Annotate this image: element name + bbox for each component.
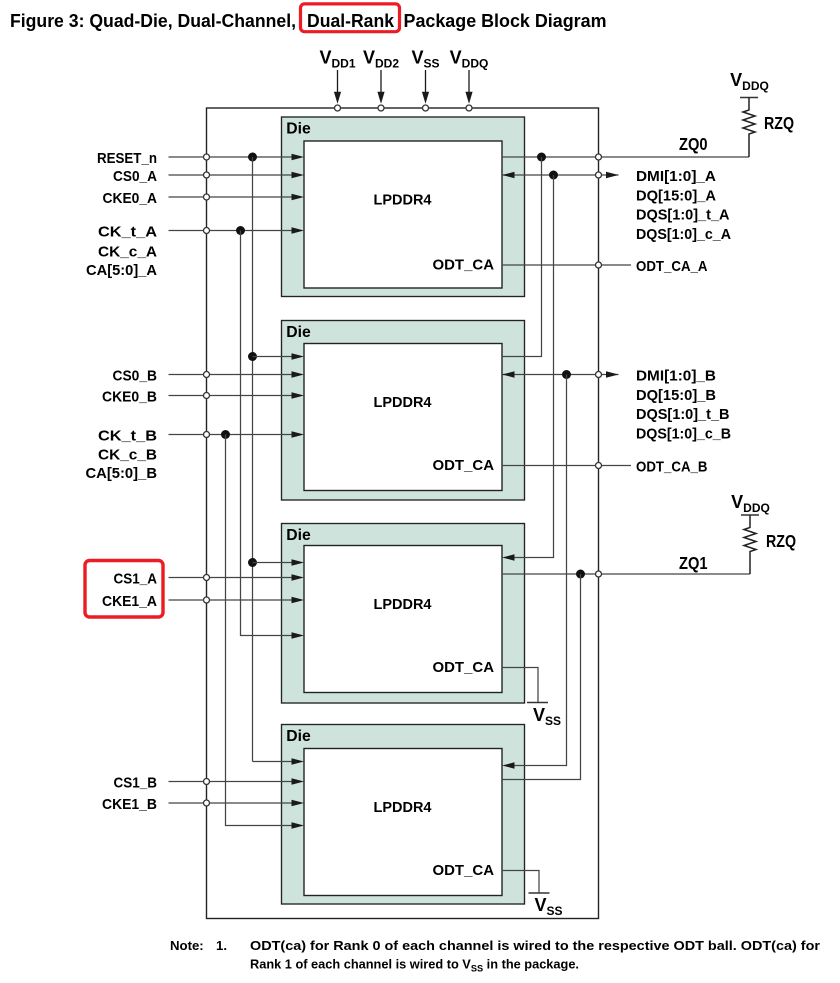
svg-text:CA[5:0]_B: CA[5:0]_B [86, 465, 158, 482]
ball VDD2 on package edge [378, 105, 384, 111]
die 2 outline [282, 321, 525, 501]
figure title [10, 11, 607, 31]
signal label CK_t_A [98, 224, 157, 241]
wire die3 ODT_CA to VSS [502, 668, 538, 703]
svg-text:CS0_A: CS0_A [113, 168, 157, 185]
title highlighted text Dual-Rank [307, 11, 395, 31]
svg-text:Die: Die [286, 728, 311, 745]
ball CKE1_B on package edge [204, 800, 210, 806]
svg-text:ODT_CA_B: ODT_CA_B [636, 459, 708, 476]
wire ZQ1 branch to die4 [502, 574, 581, 780]
svg-text:CS1_A: CS1_A [114, 571, 158, 588]
value label RZQ (ZQ0) [764, 113, 794, 133]
svg-text:Die: Die [286, 324, 311, 341]
svg-text:1.: 1. [216, 938, 227, 953]
wire RESET_n branch into die3 [253, 559, 305, 565]
signal label CA[5:0]_A [86, 262, 157, 279]
die 1 pin ODT_CA label [433, 257, 495, 274]
svg-text:CS0_B: CS0_B [113, 368, 158, 385]
signal label CKE1_B [102, 796, 157, 813]
wire CKE1_A into package [169, 597, 305, 603]
wire die4 ODT_CA to VSS [502, 871, 539, 894]
signal label CS1_B [114, 775, 158, 792]
power pin VDDQ label [450, 48, 489, 71]
svg-text:VSS: VSS [533, 705, 561, 728]
wire CKE0_A into package [169, 194, 305, 200]
wire ODT_CA_A [502, 264, 631, 266]
node ZQ0 junction [537, 153, 546, 162]
svg-text:CKE0_B: CKE0_B [102, 389, 157, 406]
svg-text:CK_t_B: CK_t_B [98, 428, 157, 445]
wire CK_t_B vertical bus to die4 [226, 435, 305, 829]
wire RESET_n branch into die4 [253, 758, 305, 764]
die 2 pin ODT_CA label [433, 457, 495, 474]
svg-text:LPDDR4: LPDDR4 [374, 596, 433, 613]
signal label CS0_B [113, 368, 158, 385]
svg-text:VSS: VSS [411, 48, 439, 71]
svg-text:CK_c_A: CK_c_A [98, 244, 157, 261]
wire CK_t_A into package [169, 227, 305, 233]
wire DQ bus die2 bidirectional [502, 371, 619, 377]
ball CK_t_A on package edge [204, 228, 210, 234]
ball ODT_CA_A on package edge [596, 262, 602, 268]
die 4 pin ODT_CA label [433, 862, 495, 879]
LPDDR4 block U3 [304, 546, 502, 693]
ball VSS on package edge [423, 105, 429, 111]
resistor RZQ (ZQ0) [743, 98, 755, 158]
svg-text:DQS[1:0]_c_B: DQS[1:0]_c_B [636, 425, 731, 442]
wire RESET_n into package [169, 154, 305, 160]
svg-text:ODT_CA: ODT_CA [433, 457, 495, 474]
node CK_t_B junction [221, 430, 230, 439]
ball ZQ0 on package edge [596, 154, 602, 160]
wire VDDQ pin stem [465, 70, 472, 104]
svg-text:DQS[1:0]_t_B: DQS[1:0]_t_B [636, 406, 730, 423]
svg-text:CKE1_B: CKE1_B [102, 796, 157, 813]
signal label CA[5:0]_B [86, 465, 158, 482]
svg-text:CKE1_A: CKE1_A [102, 593, 157, 610]
signal label CS0_A [113, 168, 157, 185]
die 4 outline [282, 725, 525, 905]
wire VDD2 pin stem [377, 70, 384, 104]
svg-text:CA[5:0]_A: CA[5:0]_A [86, 262, 157, 279]
wire VDD1 pin stem [334, 70, 341, 104]
wire CS0_B into package [169, 371, 305, 377]
die 1 outline [282, 117, 525, 297]
node ZQ1 junction [576, 570, 585, 579]
note text [170, 938, 820, 974]
wire ZQ1 from die3 to RZQ resistor [502, 573, 750, 575]
signal label CK_c_B [98, 447, 157, 464]
package outline [207, 108, 599, 919]
svg-text:Note:: Note: [170, 938, 204, 953]
ground VSS die3 [527, 703, 561, 728]
svg-text:LPDDR4: LPDDR4 [374, 191, 433, 208]
svg-text:ZQ0: ZQ0 [679, 134, 708, 154]
svg-text:VDD1: VDD1 [319, 48, 355, 71]
svg-text:DQ[15:0]_B: DQ[15:0]_B [636, 387, 716, 404]
svg-text:Die: Die [286, 120, 311, 137]
signal label ODT_CA_A [636, 258, 708, 275]
svg-text:VDD2: VDD2 [363, 48, 399, 71]
ball CKE0_B on package edge [204, 393, 210, 399]
resistor RZQ (ZQ1) [744, 515, 756, 574]
signal labels DQ bus channel A [636, 168, 731, 243]
svg-text:CS1_B: CS1_B [114, 775, 158, 792]
svg-text:Die: Die [286, 527, 311, 544]
signal label CS1_A [114, 571, 158, 588]
svg-text:ODT_CA: ODT_CA [433, 257, 495, 274]
svg-text:CK_c_B: CK_c_B [98, 447, 157, 464]
signal label ODT_CA_B [636, 459, 708, 476]
svg-text:RESET_n: RESET_n [97, 150, 157, 167]
power rail VDDQ for RZQ0 [730, 70, 769, 93]
svg-text:RZQ: RZQ [764, 113, 794, 133]
ball VDD1 on package edge [335, 105, 341, 111]
svg-text:DMI[1:0]_B: DMI[1:0]_B [636, 368, 716, 385]
signal label CK_c_A [98, 244, 157, 261]
svg-text:VDDQ: VDDQ [730, 70, 769, 93]
ball DQ-A on package edge [596, 172, 602, 178]
ball CS0_B on package edge [204, 372, 210, 378]
ball CKE1_A on package edge [204, 597, 210, 603]
svg-text:CK_t_A: CK_t_A [98, 224, 157, 241]
svg-text:ODT_CA_A: ODT_CA_A [636, 258, 708, 275]
wire DQ bus die1 bidirectional [502, 172, 619, 178]
ball CS1_B on package edge [204, 779, 210, 785]
svg-text:DQS[1:0]_c_A: DQS[1:0]_c_A [636, 226, 731, 243]
power rail VDDQ for RZQ1 [731, 492, 770, 515]
node RESET_n junction die1 [248, 153, 257, 162]
svg-text:VDDQ: VDDQ [450, 48, 489, 71]
wire ODT_CA_B [502, 465, 631, 467]
ball VDDQ on package edge [466, 105, 472, 111]
wire ZQ0 branch to die2 [502, 157, 542, 357]
value label RZQ (ZQ1) [766, 531, 796, 551]
ball ZQ1 on package edge [596, 571, 602, 577]
power pin VSS label [411, 48, 439, 71]
wire DQ-A bus branch to die3 [502, 175, 554, 561]
svg-text:ODT(ca) for Rank 0 of each cha: ODT(ca) for Rank 0 of each channel is wi… [250, 938, 820, 953]
svg-text:ODT_CA: ODT_CA [433, 659, 495, 676]
node DQ-B bus junction [562, 370, 571, 379]
node RESET_n junction die3 [248, 558, 257, 567]
wire CKE0_B into package [169, 392, 305, 398]
wire CK_t_A vertical bus to die3 [241, 231, 305, 639]
ball DQ-B on package edge [596, 372, 602, 378]
wire CKE1_B into package [169, 800, 305, 806]
LPDDR4 block U2 [304, 344, 502, 491]
wire CS1_B into package [169, 778, 305, 784]
net label ZQ0 [679, 134, 708, 154]
wire DQ-B bus branch to die4 [502, 375, 567, 769]
svg-text:ODT_CA: ODT_CA [433, 862, 495, 879]
red highlight box around CS1_A and CKE1_A [85, 561, 163, 618]
svg-text:Dual-Rank: Dual-Rank [307, 11, 395, 31]
node CK_t_A junction [236, 226, 245, 235]
net label ZQ1 [679, 553, 708, 573]
svg-text:Rank 1 of each channel is wire: Rank 1 of each channel is wired to VSS i… [250, 957, 579, 975]
ball RESET_n on package edge [204, 154, 210, 160]
signal labels DQ bus channel B [636, 368, 731, 443]
red highlight box around Dual-Rank [301, 4, 400, 32]
svg-text:VDDQ: VDDQ [731, 492, 770, 515]
die 2 label [286, 324, 311, 341]
signal label CK_t_B [98, 428, 157, 445]
power pin VDD1 label [319, 48, 355, 71]
signal label CKE0_B [102, 389, 157, 406]
signal label CKE0_A [103, 190, 158, 207]
power pin VDD2 label [363, 48, 399, 71]
die 4 label [286, 728, 311, 745]
die 3 outline [282, 524, 525, 704]
ball CS0_A on package edge [204, 172, 210, 178]
wire RESET_n vertical bus [252, 157, 254, 762]
signal label RESET_n [97, 150, 157, 167]
die 3 label [286, 527, 311, 544]
svg-text:LPDDR4: LPDDR4 [374, 394, 433, 411]
svg-text:RZQ: RZQ [766, 531, 796, 551]
LPDDR4 block U1 [304, 141, 502, 288]
LPDDR4 block U4 [304, 749, 502, 896]
ball ODT_CA_B on package edge [596, 463, 602, 469]
svg-text:CKE0_A: CKE0_A [103, 190, 158, 207]
svg-text:VSS: VSS [535, 895, 563, 918]
wire VSS pin stem [422, 70, 429, 104]
svg-text:Package Block Diagram: Package Block Diagram [404, 11, 607, 31]
power rail tick VDDQ RZQ0 [740, 97, 758, 99]
wire ZQ0 from die1 to RZQ resistor [502, 156, 749, 158]
svg-text:ZQ1: ZQ1 [679, 553, 708, 573]
die 1 label [286, 120, 311, 137]
svg-text:Figure 3: Quad-Die, Dual-Chann: Figure 3: Quad-Die, Dual-Channel, [10, 11, 296, 31]
wire RESET_n branch into die2 [253, 353, 305, 359]
wire CS1_A into package [169, 574, 305, 580]
svg-text:LPDDR4: LPDDR4 [374, 799, 433, 816]
ball CK_t_B on package edge [204, 432, 210, 438]
wire CK_t_B into package [169, 431, 305, 437]
node DQ-A bus junction [549, 171, 558, 180]
signal label CKE1_A [102, 593, 157, 610]
node RESET_n junction die2 [248, 352, 257, 361]
power rail tick VDDQ RZQ1 [741, 514, 759, 516]
svg-text:DQS[1:0]_t_A: DQS[1:0]_t_A [636, 207, 730, 224]
ball CKE0_A on package edge [204, 194, 210, 200]
wire CS0_A into package [169, 172, 305, 178]
svg-text:DQ[15:0]_A: DQ[15:0]_A [636, 187, 716, 204]
ball CS1_A on package edge [204, 575, 210, 581]
die 3 pin ODT_CA label [433, 659, 495, 676]
ground VSS die4 [529, 893, 563, 918]
svg-text:DMI[1:0]_A: DMI[1:0]_A [636, 168, 716, 185]
